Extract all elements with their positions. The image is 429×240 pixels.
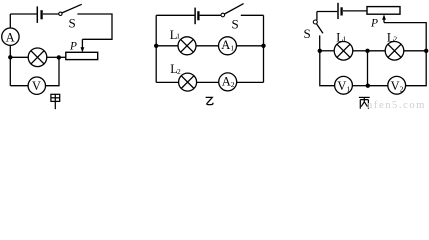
wire: top-left to battery (156, 14, 194, 16)
junction dot (jia right) (57, 55, 61, 59)
svg-text:S: S (232, 16, 239, 31)
svg-text:P: P (370, 17, 378, 29)
lamp L (jia) (28, 48, 47, 67)
svg-text:nfen5.com: nfen5.com (367, 100, 426, 110)
wire: ammeter down through junction to voltmeter row (9, 45, 11, 85)
svg-text:A: A (6, 30, 15, 44)
label 乙 (206, 97, 213, 104)
wire: lamp to right junction (47, 56, 59, 58)
wire: left vertical (yi) (155, 15, 157, 82)
wire: right vertical (yi) (263, 15, 265, 82)
voltmeter V (jia) (28, 77, 45, 94)
svg-text:2: 2 (231, 80, 235, 89)
wire: middle junction to lamp L2 (368, 50, 386, 52)
junction dot (bing lamp-row right) (424, 49, 428, 53)
svg-text:1: 1 (346, 84, 350, 93)
svg-text:2: 2 (177, 67, 181, 76)
wire: junction to lamp L1 (320, 50, 334, 52)
svg-text:A: A (221, 38, 230, 52)
voltmeter V1 (bing) (335, 76, 353, 94)
voltmeter V2 (bing) (388, 76, 406, 94)
svg-text:A: A (222, 74, 231, 88)
switch S (yi) (221, 4, 244, 17)
svg-text:V: V (32, 79, 41, 93)
wire: V2 to right vertical (406, 51, 427, 86)
lamp L2 (yi) (179, 73, 197, 91)
ammeter A (jia) (2, 28, 19, 45)
wire: switch to top-right corner (241, 14, 264, 16)
junction dot (yi right) (261, 44, 265, 48)
wire: top-left corner to battery (317, 12, 337, 21)
wiper arrow P (jia) (81, 39, 85, 52)
junction dot (bing lamp-row left) (318, 49, 322, 53)
wire: A2 to L2 (197, 81, 219, 83)
svg-text:S: S (69, 16, 76, 31)
switch S (bing) (313, 20, 323, 33)
label L1 (bing) (336, 31, 346, 45)
svg-text:V: V (391, 79, 400, 93)
lamp L1 (yi) (178, 37, 196, 55)
label L1 (yi) (170, 28, 181, 42)
wire: L2 to bottom-left corner (156, 81, 178, 83)
junction dot (jia left) (8, 55, 12, 59)
wire: L1 to middle junction (353, 50, 368, 52)
label 丙 (359, 97, 370, 108)
junction dot (yi left) (154, 44, 158, 48)
svg-text:S: S (304, 26, 311, 41)
rheostat (jia) (66, 52, 98, 59)
wire: left vertical down to voltmeter row (320, 51, 335, 86)
wire: battery to rheostat (343, 10, 367, 12)
label L2 (bing) (387, 31, 398, 45)
wire: battery to switch (200, 14, 221, 16)
wiper arrow P (bing) (382, 14, 386, 22)
wire: middle junction to V2 (368, 85, 388, 87)
lamp L1 (bing) (334, 42, 353, 61)
switch S (jia) (59, 4, 82, 15)
wire: L2 to right junction (404, 50, 426, 52)
wire: bottom to lamp L2 (yi outer bottom) (237, 81, 264, 83)
junction dot (bing lamp-row middle) (365, 49, 369, 53)
battery cell (yi) (195, 8, 198, 25)
ammeter A1 (yi) (219, 37, 237, 55)
label L2 (yi) (170, 62, 181, 76)
ammeter A2 (yi) (219, 73, 237, 91)
svg-text:V: V (337, 79, 346, 93)
svg-text:1: 1 (230, 43, 234, 52)
wire: middle vertical between junctions (367, 51, 369, 86)
wire: voltmeter row left (10, 85, 28, 87)
wire: switch to top-right corner down to wiper level (77, 14, 112, 39)
wire: left junction to lamp L1 (156, 45, 178, 47)
battery cell (jia) (37, 6, 41, 23)
wire: switch to left lamp junction (319, 35, 321, 50)
wire: top-left corner to battery (10, 13, 36, 15)
svg-text:P: P (69, 41, 77, 53)
battery cell (bing) (338, 3, 342, 19)
svg-text:2: 2 (393, 34, 397, 43)
wire: A1 to right junction (237, 45, 264, 47)
lamp L2 (bing) (385, 42, 404, 61)
rheostat (bing) (367, 7, 400, 15)
label 甲 (51, 94, 60, 109)
wire: voltmeter right up to junction (46, 57, 60, 85)
wire: wiper to right vertical down to lamp row (384, 23, 426, 51)
wire: left vertical corner to ammeter (9, 14, 11, 28)
wire: lamp junction to rheostat (59, 56, 66, 58)
wire: battery to switch (43, 13, 59, 15)
svg-text:1: 1 (176, 32, 180, 41)
svg-text:1: 1 (343, 34, 347, 43)
wire: V1 to middle bottom junction (352, 85, 367, 87)
svg-text:2: 2 (400, 84, 404, 93)
junction dot (bing bottom middle) (366, 84, 370, 88)
wire: junction to lamp (10, 56, 28, 58)
wire: L1 to A1 (196, 45, 219, 47)
